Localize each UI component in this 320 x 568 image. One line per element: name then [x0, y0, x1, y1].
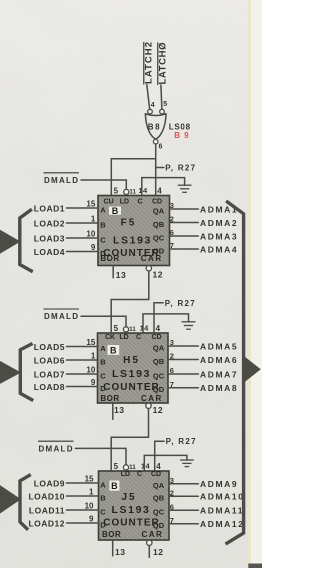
net LOAD10	[28, 487, 98, 501]
IC U-H5 body LS193 counter	[98, 333, 169, 403]
svg-text:BOR: BOR	[100, 394, 119, 403]
svg-text:P, R27: P, R27	[166, 437, 197, 446]
svg-text:7: 7	[170, 380, 174, 389]
svg-text:6: 6	[170, 502, 174, 511]
svg-text:QB: QB	[153, 494, 165, 503]
gate B8 body (LS08)	[145, 114, 166, 139]
svg-text:C: C	[137, 199, 142, 206]
svg-text:B9: B9	[174, 131, 192, 140]
svg-text:LOAD2: LOAD2	[34, 219, 65, 229]
svg-text:CAR: CAR	[141, 394, 163, 403]
bus arrow LOAD group 1	[0, 230, 21, 254]
svg-text:4: 4	[156, 324, 161, 333]
pin 13 BOR stub	[113, 540, 126, 557]
wire pin 14 to ground	[143, 314, 189, 333]
svg-text:LOAD4: LOAD4	[34, 247, 65, 257]
svg-text:5: 5	[114, 186, 119, 195]
svg-text:CD: CD	[151, 334, 161, 341]
svg-text:CAR: CAR	[141, 254, 163, 263]
bus arrow LOAD group 3	[0, 485, 21, 513]
svg-text:10: 10	[86, 229, 95, 238]
net LOAD7	[34, 365, 98, 379]
net LOAD12	[28, 514, 98, 528]
net LOAD6	[34, 351, 98, 365]
svg-text:4: 4	[157, 186, 162, 195]
svg-text:ADMA7: ADMA7	[200, 369, 238, 379]
net LOAD5	[34, 338, 98, 352]
svg-text:9: 9	[89, 514, 94, 523]
bus bracket LOAD group 3	[20, 475, 29, 528]
svg-text:P, R27: P, R27	[165, 163, 196, 172]
svg-text:A: A	[100, 205, 106, 214]
svg-text:ADMA6: ADMA6	[200, 355, 238, 365]
pin 13 BOR stub	[113, 403, 125, 419]
svg-text:14: 14	[140, 324, 150, 333]
svg-text:C: C	[100, 507, 106, 516]
svg-text:QC: QC	[153, 508, 165, 517]
svg-text:B: B	[110, 345, 117, 355]
net DMALD	[44, 173, 127, 190]
page right edge cream strip	[248, 0, 251, 568]
wire pin 4 pull-up riser	[153, 303, 155, 333]
svg-text:1: 1	[91, 214, 96, 223]
svg-text:CD: CD	[151, 471, 161, 478]
wire U-J5 CAR stub	[148, 546, 150, 558]
dark corner bar bottom-right	[248, 564, 262, 568]
svg-text:QA: QA	[153, 481, 165, 490]
net LOAD1	[34, 199, 98, 213]
svg-text:6: 6	[170, 228, 174, 237]
net ADMA1	[170, 201, 239, 214]
svg-text:A: A	[100, 480, 106, 489]
svg-text:LOAD12: LOAD12	[28, 519, 65, 529]
svg-text:DMALD: DMALD	[44, 176, 79, 185]
op gate U-B8 input bubble pin 4	[148, 109, 153, 114]
svg-text:CK: CK	[105, 334, 115, 341]
svg-text:A: A	[100, 344, 106, 353]
op gate U-B8 input bubble pin 5	[160, 109, 165, 114]
svg-text:LS193: LS193	[113, 235, 152, 247]
svg-text:3: 3	[170, 338, 174, 347]
net ADMA9	[169, 476, 238, 489]
svg-text:CAR: CAR	[142, 530, 164, 539]
pin 12 CAR bubble	[147, 540, 164, 557]
wire pin 14 to ground	[144, 455, 187, 471]
svg-text:B: B	[112, 206, 119, 216]
svg-text:LATCHØ: LATCHØ	[158, 43, 169, 85]
svg-text:QB: QB	[153, 357, 165, 366]
svg-text:C: C	[137, 471, 142, 478]
net ADMA5	[168, 338, 238, 351]
bus bracket LOAD group 2	[20, 344, 31, 399]
svg-text:9: 9	[91, 378, 96, 387]
svg-text:5: 5	[163, 101, 167, 108]
svg-text:B: B	[100, 493, 106, 502]
net ADMA12	[169, 516, 245, 529]
svg-text:ADMA8: ADMA8	[200, 383, 238, 393]
net ADMA3	[170, 228, 239, 241]
wire U-H5 CAR to U-J5 CU	[111, 409, 148, 471]
net ADMA11	[169, 502, 244, 515]
svg-text:ADMA12: ADMA12	[200, 519, 245, 529]
net LOAD8	[34, 378, 98, 392]
svg-text:QC: QC	[153, 233, 165, 242]
svg-text:2: 2	[170, 488, 174, 497]
svg-text:ADMA10: ADMA10	[200, 492, 245, 502]
pin 13 BOR stub	[113, 266, 126, 281]
net LOAD9	[34, 474, 99, 488]
svg-text:ADMA2: ADMA2	[200, 218, 238, 228]
svg-text:4: 4	[151, 102, 155, 109]
svg-text:C: C	[136, 334, 141, 341]
svg-text:ADMA4: ADMA4	[200, 244, 238, 254]
ground	[178, 185, 192, 192]
svg-text:J5: J5	[121, 492, 136, 503]
svg-text:DMALD: DMALD	[44, 312, 79, 321]
svg-text:11: 11	[129, 464, 136, 471]
net P,R27 pull-up	[156, 163, 197, 172]
svg-text:12: 12	[153, 547, 163, 557]
svg-text:LD: LD	[119, 334, 128, 341]
svg-text:QA: QA	[153, 343, 165, 352]
svg-text:QA: QA	[153, 206, 165, 215]
wire pin 4 pull-up riser	[154, 441, 156, 471]
pin 11 LD bubble	[123, 327, 128, 332]
net P,R27 pull-up	[155, 437, 197, 446]
svg-text:BOR: BOR	[100, 254, 119, 263]
svg-text:ADMA11: ADMA11	[200, 506, 244, 516]
svg-text:3: 3	[170, 476, 174, 485]
svg-text:QC: QC	[153, 371, 165, 380]
svg-text:14: 14	[141, 462, 151, 471]
net ADMA7	[168, 366, 238, 379]
svg-text:11: 11	[129, 326, 136, 333]
svg-text:10: 10	[85, 501, 94, 510]
svg-text:12: 12	[153, 405, 163, 415]
svg-text:QB: QB	[153, 220, 165, 229]
svg-text:LOAD3: LOAD3	[34, 234, 65, 244]
gate output bubble pin 6	[153, 139, 158, 144]
ground	[180, 460, 194, 467]
net LATCH2 label	[144, 42, 155, 85]
net ADMA10	[169, 488, 245, 501]
svg-text:CD: CD	[152, 199, 162, 206]
svg-text:6: 6	[159, 144, 163, 151]
svg-text:2: 2	[170, 215, 174, 224]
svg-text:ADMA9: ADMA9	[200, 479, 238, 489]
svg-text:B8: B8	[148, 122, 161, 131]
svg-text:5: 5	[114, 462, 119, 471]
net P,R27 pull-up	[154, 299, 196, 308]
svg-text:3: 3	[170, 201, 174, 210]
svg-text:LOAD9: LOAD9	[34, 479, 65, 489]
IC U-J5 body LS193 counter	[99, 471, 170, 540]
pin 12 CAR bubble	[146, 266, 163, 280]
svg-text:5: 5	[114, 324, 119, 333]
svg-text:2: 2	[170, 352, 174, 361]
wire pin 14 to ground	[142, 178, 185, 196]
svg-text:C: C	[100, 371, 106, 380]
bus bracket ADMA outputs	[227, 202, 244, 543]
net LOAD11	[29, 501, 99, 515]
svg-text:LOAD8: LOAD8	[34, 382, 65, 392]
bus arrow LOAD group 2	[0, 361, 21, 384]
svg-text:12: 12	[153, 270, 163, 280]
svg-text:13: 13	[115, 547, 125, 557]
svg-text:P, R27: P, R27	[165, 299, 196, 308]
svg-text:BOR: BOR	[102, 530, 121, 539]
svg-text:LS193: LS193	[112, 504, 151, 516]
svg-text:B: B	[100, 220, 106, 229]
net DMALD	[44, 309, 127, 327]
svg-text:COUNTER: COUNTER	[103, 382, 159, 393]
svg-text:11: 11	[129, 188, 136, 195]
net LATCH0 label	[158, 43, 169, 86]
svg-text:LOAD10: LOAD10	[28, 492, 65, 502]
svg-text:LOAD7: LOAD7	[34, 370, 65, 380]
svg-text:6: 6	[170, 366, 174, 375]
net ADMA6	[168, 352, 238, 365]
net LOAD3	[34, 229, 98, 243]
svg-text:C: C	[100, 235, 106, 244]
svg-text:4: 4	[156, 462, 161, 471]
svg-text:H5: H5	[123, 355, 140, 366]
wire gate output down to pin 4 of U-F5	[155, 144, 157, 196]
bus bracket LOAD group 1	[20, 210, 32, 271]
svg-text:7: 7	[170, 241, 174, 250]
svg-text:B: B	[111, 481, 118, 491]
IC U-F5 body LS193 counter	[98, 196, 170, 266]
svg-text:15: 15	[85, 474, 94, 483]
svg-text:15: 15	[86, 338, 95, 347]
svg-text:B: B	[100, 357, 106, 366]
svg-text:LOAD6: LOAD6	[34, 356, 65, 366]
wire U-F5 CAR to U-H5 CU	[111, 271, 149, 333]
svg-text:15: 15	[86, 199, 95, 208]
svg-text:13: 13	[116, 270, 126, 280]
svg-text:DMALD: DMALD	[39, 444, 74, 453]
net LOAD4	[34, 243, 98, 257]
svg-text:10: 10	[86, 365, 95, 374]
net ADMA2	[170, 215, 239, 228]
net ADMA8	[168, 380, 238, 393]
svg-text:LOAD5: LOAD5	[34, 342, 65, 352]
svg-text:LS193: LS193	[112, 368, 151, 380]
pin 11 LD bubble	[124, 189, 129, 194]
svg-text:LD: LD	[121, 471, 130, 478]
svg-text:1: 1	[89, 487, 94, 496]
pin 11 LD bubble	[123, 465, 128, 470]
svg-text:LD: LD	[120, 199, 129, 206]
net DMALD	[38, 441, 126, 465]
svg-text:7: 7	[170, 516, 174, 525]
svg-text:1: 1	[91, 351, 96, 360]
wire LATCH2 to gate	[147, 85, 150, 110]
svg-text:COUNTER: COUNTER	[103, 518, 159, 529]
ground	[182, 322, 196, 329]
svg-text:F5: F5	[121, 217, 137, 228]
svg-text:14: 14	[138, 186, 148, 195]
svg-text:LOAD1: LOAD1	[34, 204, 65, 214]
wire LATCH0 to gate	[161, 85, 162, 109]
svg-text:ADMA5: ADMA5	[200, 341, 238, 351]
svg-text:13: 13	[114, 405, 124, 415]
net LOAD2	[34, 214, 98, 228]
pin 12 CAR bubble	[146, 403, 163, 415]
svg-text:LOAD11: LOAD11	[29, 506, 65, 516]
bus arrow ADMA outputs	[245, 357, 261, 382]
svg-text:ADMA3: ADMA3	[200, 231, 238, 241]
wire branch to pin 5 (CU) of U-F5	[111, 159, 155, 196]
net ADMA4	[170, 241, 239, 254]
svg-text:9: 9	[91, 243, 96, 252]
